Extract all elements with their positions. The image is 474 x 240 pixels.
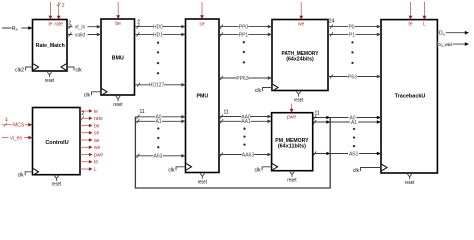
svg-text:reset: reset xyxy=(198,180,208,186)
wire A0 (PMU) xyxy=(135,114,185,121)
wire PP63 xyxy=(219,75,272,82)
svg-text:PP63: PP63 xyxy=(236,76,248,82)
ControlU output se xyxy=(80,131,100,137)
svg-text:PMU: PMU xyxy=(197,94,209,100)
svg-text:pwe: pwe xyxy=(94,152,103,158)
clock pin clk2 xyxy=(15,64,38,74)
svg-text:te: te xyxy=(94,160,98,166)
clock pin clk xyxy=(255,84,278,94)
ellipsis dots P xyxy=(351,41,353,64)
svg-text:11: 11 xyxy=(315,110,320,116)
svg-text:se: se xyxy=(94,131,100,137)
svg-text:MCS: MCS xyxy=(13,123,25,129)
reset pin ControlU reset xyxy=(52,176,62,188)
reset pin Rate_Match reset xyxy=(45,72,55,84)
svg-text:AA63: AA63 xyxy=(242,152,254,158)
svg-text:A63: A63 xyxy=(154,154,163,160)
ControlU output we xyxy=(80,145,101,151)
control input L xyxy=(423,2,427,28)
wire PP0 xyxy=(219,24,272,31)
svg-text:L: L xyxy=(94,167,97,173)
ControlU output be xyxy=(80,123,100,129)
svg-text:reset: reset xyxy=(52,182,62,188)
svg-text:reset: reset xyxy=(45,78,55,84)
block TracebackU xyxy=(381,20,437,173)
svg-text:(64x11bits): (64x11bits) xyxy=(278,143,306,149)
ControlU output le xyxy=(80,109,98,115)
svg-text:HD1: HD1 xyxy=(153,32,163,38)
svg-text:clk: clk xyxy=(254,167,261,173)
svg-text:clk: clk xyxy=(255,88,262,94)
wire PP1 xyxy=(219,32,272,39)
wire A63 (PM_MEMORY to bus and TracebackU) xyxy=(313,151,381,158)
svg-text:A1: A1 xyxy=(155,119,161,125)
output Do xyxy=(437,30,469,36)
clock pin clk xyxy=(254,164,277,174)
clock pin clk xyxy=(353,164,387,174)
control input te xyxy=(408,2,412,28)
svg-text:AA1: AA1 xyxy=(241,119,251,125)
svg-text:clk2: clk2 xyxy=(15,68,24,74)
svg-text:P0: P0 xyxy=(348,25,354,31)
svg-text:HD127: HD127 xyxy=(149,83,165,89)
svg-text:Rate_Match: Rate_Match xyxy=(36,43,66,49)
svg-text:le: le xyxy=(48,22,52,28)
input vl_en xyxy=(2,135,33,142)
reset pin PMU reset xyxy=(198,174,208,186)
block BMU xyxy=(101,19,135,95)
wire A63 (PMU) xyxy=(135,153,185,160)
wire HD0 xyxy=(135,24,186,31)
svg-text:ae: ae xyxy=(94,138,100,144)
control input we xyxy=(298,2,305,28)
svg-text:clk: clk xyxy=(76,68,83,74)
ellipsis dots PP xyxy=(243,41,245,64)
ControlU output pwe xyxy=(80,152,103,158)
block PMU xyxy=(186,19,220,173)
output Do_valid xyxy=(437,42,469,48)
clock pin clk xyxy=(61,64,82,74)
svg-text:vt_in: vt_in xyxy=(75,25,86,31)
svg-text:reset: reset xyxy=(113,102,123,108)
control input rate xyxy=(54,2,64,28)
wire valid xyxy=(67,32,101,39)
svg-text:te: te xyxy=(408,22,412,28)
wire P0 xyxy=(328,24,381,31)
ControlU output te xyxy=(80,160,98,166)
svg-text:(64x24bits): (64x24bits) xyxy=(286,57,314,63)
svg-text:rate: rate xyxy=(94,116,103,122)
reset pin TracebackU reset xyxy=(405,174,415,186)
control input se xyxy=(199,2,205,27)
svg-text:P63: P63 xyxy=(348,74,357,80)
ControlU output ae xyxy=(80,138,100,144)
svg-text:PP1: PP1 xyxy=(239,32,249,38)
wire A1 (PMU) xyxy=(135,119,185,126)
svg-text:11: 11 xyxy=(140,109,145,115)
input Rx xyxy=(2,25,33,32)
ellipsis dots HD xyxy=(157,42,159,75)
reset pin BMU reset xyxy=(113,96,123,108)
ControlU output L xyxy=(80,167,97,173)
svg-text:24: 24 xyxy=(329,18,335,24)
ellipsis dots A-TB xyxy=(353,128,355,148)
svg-text:we: we xyxy=(94,145,101,151)
svg-text:2: 2 xyxy=(62,3,65,9)
svg-text:clk: clk xyxy=(168,167,175,173)
svg-text:clk: clk xyxy=(353,168,360,174)
wire P1 xyxy=(328,32,381,39)
block ControlU xyxy=(33,108,81,175)
svg-text:we: we xyxy=(298,22,305,28)
svg-text:pwe: pwe xyxy=(287,115,296,121)
clock pin clk xyxy=(84,89,107,99)
svg-text:le: le xyxy=(94,109,98,115)
svg-text:clk: clk xyxy=(84,92,91,98)
svg-text:be: be xyxy=(115,21,121,27)
svg-text:reset: reset xyxy=(287,178,297,184)
A bus wrap-around wire xyxy=(135,117,330,188)
block Rate_Match xyxy=(33,20,68,72)
wire AA63 xyxy=(219,152,272,159)
svg-text:Do: Do xyxy=(439,31,446,37)
svg-text:L: L xyxy=(423,22,426,28)
wire A0 (PM_MEMORY to bus and TracebackU) xyxy=(313,115,381,122)
reset pin PATH_MEMORY reset xyxy=(294,92,304,104)
clock pin clk xyxy=(168,164,191,174)
block PATH_MEMORY xyxy=(272,20,328,91)
svg-text:rate: rate xyxy=(54,22,63,28)
ellipsis dots AA xyxy=(243,128,245,146)
control input pwe xyxy=(287,104,296,121)
svg-text:PP0: PP0 xyxy=(239,25,249,31)
wire P63 xyxy=(328,74,381,81)
block PM_MEMORY xyxy=(272,113,313,171)
svg-text:Rx: Rx xyxy=(12,26,18,32)
clock pin clk xyxy=(18,169,39,179)
ellipsis dots A-PMU xyxy=(157,127,159,148)
wire HD127 xyxy=(135,82,186,89)
svg-text:Do_valid: Do_valid xyxy=(438,42,453,48)
svg-text:vl_en: vl_en xyxy=(10,136,22,142)
input MCS xyxy=(2,118,33,129)
svg-text:A63: A63 xyxy=(349,151,358,157)
control input be xyxy=(115,2,121,27)
svg-text:2: 2 xyxy=(82,111,85,117)
wire AA1 xyxy=(219,119,272,126)
svg-text:A1: A1 xyxy=(351,120,357,126)
wire vt_in xyxy=(67,24,101,31)
wire AA0 xyxy=(219,114,272,121)
svg-text:ControlU: ControlU xyxy=(45,140,68,146)
wire A1 (PM_MEMORY to bus and TracebackU) xyxy=(313,119,381,126)
svg-text:se: se xyxy=(199,21,205,27)
svg-text:reset: reset xyxy=(294,98,304,104)
svg-text:2: 2 xyxy=(137,20,140,26)
wire HD1 xyxy=(135,32,186,39)
svg-text:be: be xyxy=(94,123,100,129)
svg-text:valid: valid xyxy=(75,32,86,38)
svg-text:4: 4 xyxy=(5,118,8,124)
svg-text:11: 11 xyxy=(224,109,229,115)
svg-text:clk: clk xyxy=(18,172,25,178)
ControlU output rate xyxy=(80,111,103,122)
svg-text:reset: reset xyxy=(405,180,415,186)
svg-text:P1: P1 xyxy=(349,32,355,38)
reset pin PM_MEMORY reset xyxy=(287,172,297,184)
svg-text:TracebackU: TracebackU xyxy=(395,93,426,99)
svg-text:BMU: BMU xyxy=(112,55,124,61)
control input le xyxy=(48,2,52,28)
svg-text:HD0: HD0 xyxy=(153,25,163,31)
